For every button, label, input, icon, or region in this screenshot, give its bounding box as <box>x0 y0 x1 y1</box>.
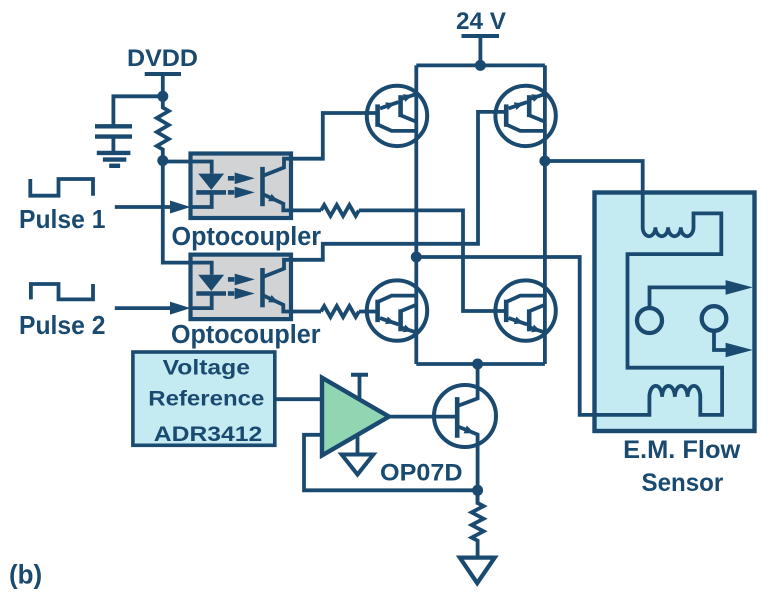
arrow into optocoupler 1 <box>170 201 191 214</box>
voltage reference box ADR3412 <box>133 352 275 445</box>
arrow electrode right <box>726 343 753 358</box>
wire H-bridge left leg <box>414 65 418 364</box>
resistor (base drive Q4) <box>321 205 359 216</box>
electrode right <box>702 306 727 331</box>
node dot left leg tap <box>411 252 422 263</box>
optocoupler U1 <box>191 154 292 219</box>
wire bottom rail <box>416 362 545 366</box>
wire opto1 collector to Q1 base <box>291 113 379 159</box>
node dot right leg tap <box>539 156 550 167</box>
wire Pulse 2 input <box>115 306 172 310</box>
electrode right output wire <box>714 331 729 350</box>
transistor Q1 (PNP darlington) <box>367 86 427 146</box>
transistor Q4 (NPN darlington) <box>495 280 555 340</box>
op-amp V+ pin <box>351 373 368 377</box>
svg-text:Voltage: Voltage <box>163 357 250 380</box>
wire <box>161 74 165 96</box>
wire opto2 emitter <box>291 310 321 314</box>
wire VR to op-amp <box>275 397 322 401</box>
transistor Q5 <box>434 385 496 447</box>
wire opto2 collector to Q2 base <box>291 112 508 260</box>
arrow into optocoupler 2 <box>170 302 191 315</box>
ground (capacitor) <box>97 151 131 155</box>
resistor (DVDD pull-up) <box>157 96 169 160</box>
wire op-amp output <box>389 415 458 419</box>
pulse 1 waveform symbol <box>30 179 93 196</box>
svg-text:Optocoupler: Optocoupler <box>172 221 322 251</box>
ground (op-amp) <box>342 455 374 475</box>
24V power bar <box>462 34 500 38</box>
node dot 24V rail <box>475 60 486 71</box>
svg-text:Optocoupler: Optocoupler <box>171 319 321 349</box>
wire Pulse 1 input <box>115 205 172 209</box>
wire H-bridge right leg <box>543 65 547 364</box>
resistor (base drive Q3) <box>321 306 359 317</box>
svg-text:Reference: Reference <box>148 388 264 411</box>
svg-text:Sensor: Sensor <box>642 469 724 497</box>
electrode left output wire <box>650 287 730 308</box>
wire opto1 emitter <box>291 208 321 212</box>
op-amp V- pin <box>356 436 360 455</box>
node dot bottom rail <box>472 359 483 370</box>
resistor (emitter) <box>472 490 484 557</box>
arrow electrode left <box>726 280 753 295</box>
24V rail <box>416 64 545 68</box>
wire to Q4 base <box>359 210 508 311</box>
transistor Q2 (PNP darlington) <box>495 86 555 146</box>
node dot emitter/feedback <box>472 485 483 496</box>
wire <box>478 36 482 65</box>
op-amp U3 OP07D <box>322 378 389 456</box>
svg-text:DVDD: DVDD <box>127 45 198 72</box>
svg-text:(b): (b) <box>9 560 42 590</box>
svg-text:OP07D: OP07D <box>380 460 463 487</box>
capacitor C1 <box>95 124 132 128</box>
DVDD power bar <box>145 72 181 76</box>
svg-text:24 V: 24 V <box>456 8 507 35</box>
transistor Q3 (NPN darlington) <box>367 280 427 340</box>
electrode left <box>637 308 662 333</box>
wire <box>112 137 116 153</box>
optocoupler U2 <box>191 255 292 320</box>
svg-text:Pulse 1: Pulse 1 <box>19 204 106 234</box>
feedback wire <box>304 435 478 491</box>
sensor coil loop wire <box>416 161 722 415</box>
wire to capacitor <box>113 96 162 126</box>
wire to optocoupler 2 anode <box>163 161 191 263</box>
svg-text:ADR3412: ADR3412 <box>154 423 262 446</box>
pulse 2 waveform symbol <box>31 284 93 299</box>
node dot DVDD <box>157 91 168 102</box>
svg-text:Pulse 2: Pulse 2 <box>19 310 106 340</box>
node dot below resistor <box>157 155 168 166</box>
wire to optocoupler 1 anode <box>163 160 191 164</box>
ground (emitter resistor) <box>460 558 495 584</box>
E.M. flow sensor box <box>595 193 755 432</box>
wire to Q3 base <box>359 310 379 314</box>
svg-text:E.M. Flow: E.M. Flow <box>623 437 741 464</box>
